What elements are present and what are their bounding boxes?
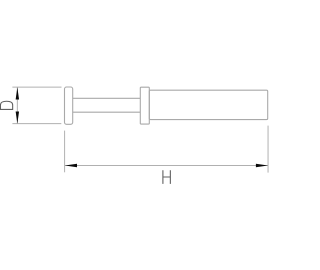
dim D: dimension line [16,87,18,123]
part: shaft bottom line [73,111,141,113]
part: collar [140,87,149,124]
part: body [149,90,267,119]
part: left flange [65,87,73,124]
dim H: label H [163,170,170,184]
dim H: right arrow [256,164,268,167]
dim H: right extension line [267,126,269,173]
part: shaft top line [73,97,141,99]
dim D: top extension line [12,86,61,88]
dim H: dimension line [65,165,268,167]
dim D: bottom extension line [12,123,61,125]
dim D: top arrow [16,87,19,99]
dim H: left arrow [65,164,77,167]
dim D: label D (rotated) [0,101,12,109]
dim H: left extension line [64,131,66,173]
dim D: bottom arrow [16,112,19,124]
